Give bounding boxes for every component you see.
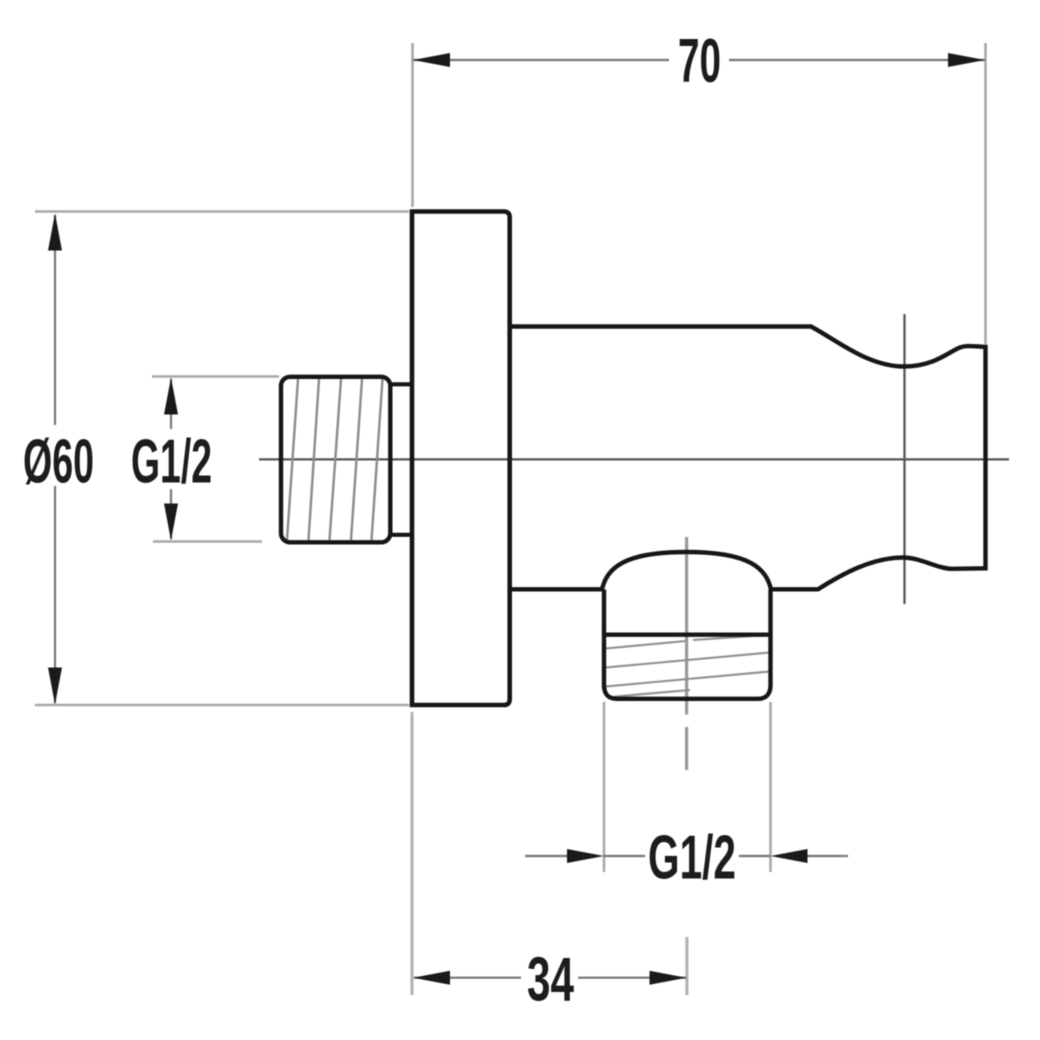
nipple thread hatch	[287, 379, 383, 540]
arrowhead G12 bottom right	[771, 849, 808, 863]
extension line D60 top	[35, 210, 409, 213]
arrowhead G12 bottom left	[567, 849, 604, 863]
centerline holder vertical	[903, 314, 905, 604]
dimension line 70	[413, 59, 985, 61]
dimension line D60	[54, 215, 56, 703]
svg-text:34: 34	[527, 945, 574, 1014]
arrowhead D60 down	[48, 668, 62, 705]
svg-text:Ø60: Ø60	[23, 427, 94, 496]
svg-text:G1/2: G1/2	[131, 427, 212, 496]
extension line D60 bottom	[35, 704, 409, 707]
centerline horizontal main axis	[259, 458, 1009, 460]
nipple collar bottom	[390, 533, 412, 537]
nipple collar top	[390, 382, 412, 386]
dimension line 34	[414, 977, 686, 979]
arrowhead 70 right	[948, 53, 985, 67]
svg-text:70: 70	[678, 27, 721, 96]
nipple thread body	[281, 377, 390, 543]
outlet thread separation line	[603, 633, 773, 637]
extension line G12 bottom left	[603, 702, 606, 872]
centerline outlet vertical	[685, 537, 688, 770]
extension line G12 bottom right	[769, 702, 772, 872]
extension line 70 left	[411, 43, 414, 207]
extension line 34 left	[411, 712, 414, 995]
arrowhead G12 left down	[164, 504, 178, 541]
outlet body below	[604, 590, 771, 699]
arrowhead D60 up	[48, 214, 62, 251]
arrowhead G12 left up	[164, 378, 178, 415]
body outline with holder	[509, 327, 986, 590]
arrowhead 34 left	[413, 971, 450, 985]
dimension line G12 bottom	[525, 855, 848, 857]
wall plate	[412, 212, 510, 706]
extension line G12 left top	[152, 375, 279, 378]
extension line 34 right	[685, 937, 688, 995]
svg-text:G1/2: G1/2	[648, 824, 736, 893]
arrowhead 34 right	[650, 971, 687, 985]
dimension line G12 left	[170, 379, 172, 539]
extension line 70 right	[984, 43, 987, 344]
arrowhead 70 left	[413, 53, 450, 67]
extension line G12 left bottom	[153, 540, 262, 543]
outlet thread hatch	[606, 635, 771, 697]
